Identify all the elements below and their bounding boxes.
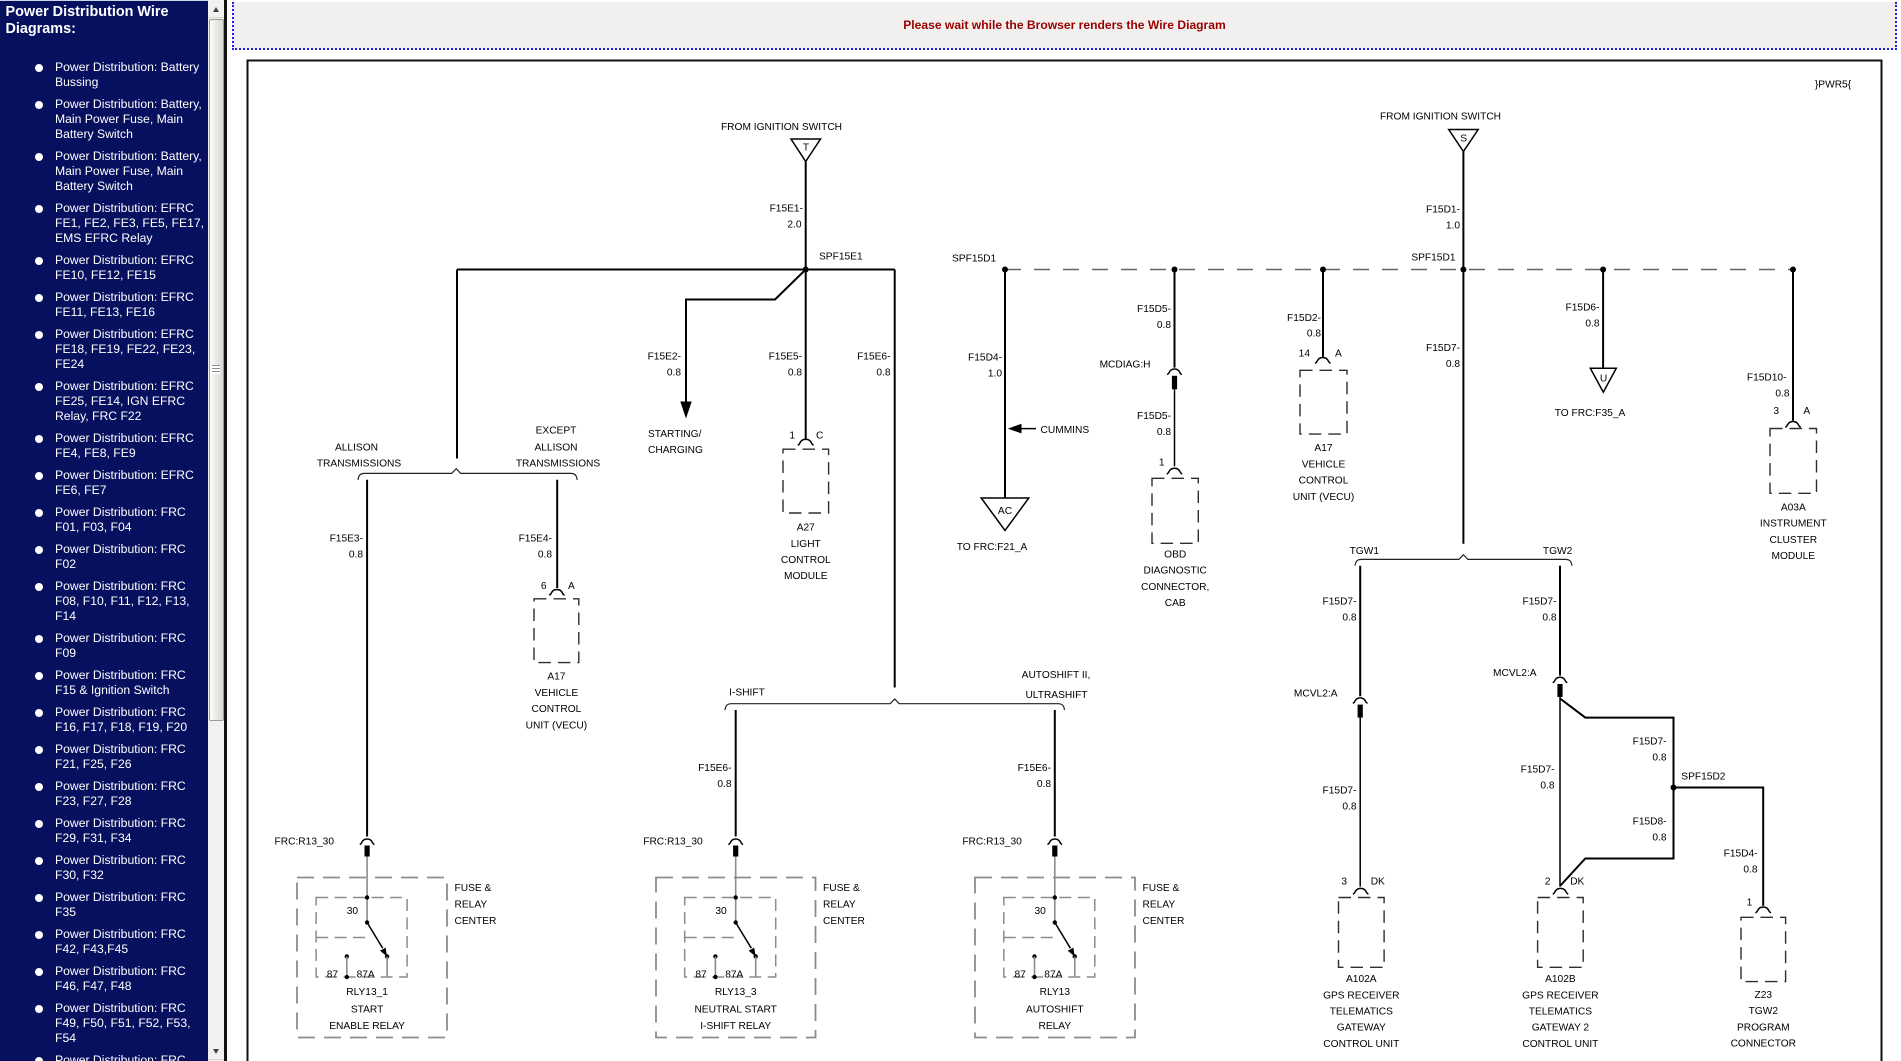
svg-text:F15D7-: F15D7- [1633,736,1667,747]
switch arm [736,923,752,949]
wire F15D7 to TGW brace [1426,270,1463,544]
wire F15D2 [1287,270,1323,357]
svg-text:TGW2: TGW2 [1749,1006,1779,1017]
svg-text:F15D7-: F15D7- [1323,785,1357,796]
svg-text:MODULE: MODULE [784,571,828,582]
svg-text:DK: DK [1371,876,1385,887]
svg-text:0.8: 0.8 [1652,752,1666,763]
svg-text:F15E6-: F15E6- [857,352,890,363]
top message box [232,2,1897,50]
svg-text:F15D7-: F15D7- [1323,596,1357,607]
svg-text:U: U [1600,373,1607,384]
svg-text:87: 87 [695,969,707,980]
svg-text:F15D7-: F15D7- [1523,596,1557,607]
svg-text:CENTER: CENTER [455,916,497,927]
svg-text:GPS RECEIVER: GPS RECEIVER [1522,990,1598,1001]
svg-text:RLY13_3: RLY13_3 [715,987,757,998]
fuse &amp; relay center box [975,878,1135,1038]
svg-text:A: A [1803,406,1810,417]
svg-text:0.8: 0.8 [349,549,363,560]
wire F15D5 upper [1137,270,1174,368]
pin 1 (Z23) [1747,898,1771,913]
svg-text:SPF15D1: SPF15D1 [1411,253,1456,264]
svg-text:30: 30 [715,906,727,917]
wire F15D7 TGW2 drop [1523,566,1560,676]
node U triangle TO FRC:F35_A [1555,368,1626,419]
svg-text:ALLISON: ALLISON [335,442,378,453]
connector FRC:R13_30 (relay 3 feed) [962,837,1062,857]
svg-text:0.8: 0.8 [1446,359,1460,370]
svg-text:TGW1: TGW1 [1350,546,1380,557]
svg-text:0.8: 0.8 [1652,832,1666,843]
svg-text:Z23: Z23 [1755,990,1773,1001]
svg-text:S: S [1460,134,1467,145]
svg-text:F15D5-: F15D5- [1137,304,1171,315]
node SPF15D2 [1671,772,1726,791]
junction at pin 30 [1053,895,1057,899]
svg-text:AC: AC [998,506,1012,517]
wire F15D10 [1747,270,1793,421]
svg-text:30: 30 [1034,906,1046,917]
svg-text:F15D6-: F15D6- [1566,303,1600,314]
svg-text:FUSE &: FUSE & [1143,883,1180,894]
svg-text:0.8: 0.8 [1585,318,1599,329]
svg-text:A: A [1335,349,1342,360]
wire F15D7 TGW1 drop [1323,566,1361,697]
CUMMINS arrow [1008,424,1090,436]
svg-text:F15D7-: F15D7- [1426,343,1460,354]
svg-text:AUTOSHIFT II,: AUTOSHIFT II, [1022,670,1091,681]
svg-text:RLY13_1: RLY13_1 [346,987,388,998]
contact 87A [1073,954,1077,958]
svg-text:1: 1 [1159,458,1165,469]
svg-text:87A: 87A [725,969,743,980]
svg-text:I-SHIFT RELAY: I-SHIFT RELAY [700,1021,771,1032]
svg-text:87A: 87A [1044,969,1062,980]
svg-text:MCVL2:A: MCVL2:A [1493,668,1537,679]
svg-text:1: 1 [789,431,795,442]
pin 14 A [1299,349,1342,364]
svg-text:DK: DK [1570,876,1584,887]
pin 6 A [541,581,575,595]
relay RLY13_1 START ENABLE RELAY [297,857,496,1038]
svg-text:UNIT (VECU): UNIT (VECU) [1293,492,1355,503]
svg-text:14: 14 [1299,349,1311,360]
svg-text:F15D8-: F15D8- [1633,816,1667,827]
wire F15D4 to AC [968,270,1005,499]
svg-text:CONTROL: CONTROL [531,704,581,715]
svg-text:F15D4-: F15D4- [1724,848,1758,859]
svg-text:CONTROL: CONTROL [781,555,831,566]
connector A03A instrument cluster [1760,429,1827,563]
svg-text:TO FRC:F35_A: TO FRC:F35_A [1555,408,1626,419]
svg-text:VEHICLE: VEHICLE [1302,459,1346,470]
svg-text:FRC:R13_30: FRC:R13_30 [643,837,703,848]
connector A17 VECU left [526,599,588,732]
svg-text:T: T [803,143,809,154]
switch arm [1055,923,1071,949]
wire SPF15D1 dashed bus [1005,269,1793,271]
svg-text:0.8: 0.8 [1542,612,1556,623]
svg-text:0.8: 0.8 [1342,612,1356,623]
wire F15D1 [1426,152,1463,270]
relay body box [316,898,407,978]
svg-text:F15E3-: F15E3- [330,533,363,544]
svg-text:F15D5-: F15D5- [1137,411,1171,422]
svg-text:OBD: OBD [1164,550,1186,561]
svg-text:C: C [816,431,823,442]
relay RLY13 AUTOSHIFT RELAY [975,857,1184,1038]
svg-text:RELAY: RELAY [1038,1021,1071,1032]
relay RLY13_3 NEUTRAL START I-SHIFT RELAY [656,857,865,1038]
svg-text:87A: 87A [357,969,375,980]
svg-text:STARTING/: STARTING/ [648,429,702,440]
sidebar [0,1,208,1061]
svg-text:NEUTRAL START: NEUTRAL START [694,1005,776,1016]
svg-text:CONNECTOR,: CONNECTOR, [1141,582,1209,593]
wire F15D7 TGW1 lower [1323,718,1361,887]
svg-text:87: 87 [327,969,339,980]
svg-text:SPF15D1: SPF15D1 [952,254,997,265]
svg-text:0.8: 0.8 [1307,329,1321,340]
relay body box [685,898,776,978]
svg-text:CHARGING: CHARGING [648,445,703,456]
svg-text:F15D10-: F15D10- [1747,373,1787,384]
connector FRC:R13_30 (relay 2 feed) [643,837,743,857]
svg-text:F15E4-: F15E4- [519,533,552,544]
connector MCVL2:A (TGW1) [1294,688,1368,717]
svg-text:GATEWAY 2: GATEWAY 2 [1532,1023,1590,1034]
contact 87 [345,954,349,958]
svg-text:MCDIAG:H: MCDIAG:H [1100,359,1151,370]
contact 87A [754,954,758,958]
connector FRC:R13_30 (relay 1 feed) [275,837,375,857]
svg-text:F15E5-: F15E5- [769,352,802,363]
fuse &amp; relay center box [297,878,447,1038]
svg-text:87: 87 [1014,969,1026,980]
svg-text:GATEWAY: GATEWAY [1337,1023,1386,1034]
wire into relay [366,857,368,923]
junction at pin 30 [365,895,369,899]
fuse &amp; relay center box [656,878,816,1038]
svg-text:2.0: 2.0 [787,220,801,231]
contact 87 [713,954,717,958]
switch arm [367,923,383,949]
node SPF15E1 [803,252,863,273]
svg-text:CLUSTER: CLUSTER [1770,535,1818,546]
svg-text:3: 3 [1773,406,1779,417]
wire into relay [1054,857,1056,923]
wire F15E6 down to I-SHIFT brace [857,270,895,688]
svg-text:ULTRASHIFT: ULTRASHIFT [1025,690,1087,701]
svg-text:CUMMINS: CUMMINS [1041,425,1090,436]
svg-text:F15E6-: F15E6- [698,763,731,774]
svg-text:A17: A17 [547,672,565,683]
wire to ALLISON brace [456,270,458,459]
contact 87 [1032,954,1036,958]
relay body box [1004,898,1095,978]
svg-text:F15D1-: F15D1- [1426,204,1460,215]
svg-text:FUSE &: FUSE & [455,883,492,894]
svg-text:TO FRC:F21_A: TO FRC:F21_A [957,542,1028,553]
wire F15D5 lower [1137,389,1174,466]
svg-text:RELAY: RELAY [455,900,488,911]
brace ALLISON / EXCEPT ALLISON [317,425,601,480]
wire F15E3 (allison) [330,480,368,837]
svg-text:0.8: 0.8 [788,368,802,379]
svg-text:FRC:R13_30: FRC:R13_30 [962,837,1022,848]
svg-text:0.8: 0.8 [538,549,552,560]
connector OBD [1141,478,1209,609]
svg-text:VEHICLE: VEHICLE [535,688,579,699]
svg-text:CONTROL UNIT: CONTROL UNIT [1323,1039,1399,1050]
svg-text:MODULE: MODULE [1772,551,1816,562]
svg-text:RLY13: RLY13 [1040,987,1071,998]
svg-text:CONTROL: CONTROL [1299,476,1349,487]
svg-text:0.8: 0.8 [876,368,890,379]
connector Z23 TGW2 program [1731,917,1796,1049]
node FROM IGNITION SWITCH (T) [721,122,842,162]
pin 1 (OBD) [1159,458,1182,475]
svg-text:F15E2-: F15E2- [648,352,681,363]
svg-text:A03A: A03A [1781,502,1806,513]
svg-text:RELAY: RELAY [1143,900,1176,911]
wire F15D7/F15D8 loop to SPF15D2 [1560,699,1674,887]
node FROM IGNITION SWITCH (S) [1380,112,1501,152]
wire F15E6 i-shift drop [698,710,736,837]
svg-text:F15E6-: F15E6- [1018,763,1051,774]
wire SPF15E1 bus [457,269,895,271]
svg-text:3: 3 [1341,876,1347,887]
wire F15D4 to Z23 [1674,788,1764,906]
pin 3 DK [1341,876,1385,894]
svg-text:SPF15D2: SPF15D2 [1681,772,1726,783]
svg-text:TELEMATICS: TELEMATICS [1529,1007,1592,1018]
svg-text:0.8: 0.8 [717,779,731,790]
svg-text:TRANSMISSIONS: TRANSMISSIONS [516,459,601,470]
junction at pin 30 [734,895,738,899]
pin 1 C [789,431,823,446]
brace I-SHIFT / AUTOSHIFT [725,670,1090,710]
wire F15D6 to U [1566,270,1604,369]
svg-text:TRANSMISSIONS: TRANSMISSIONS [317,459,402,470]
contact 87A [385,954,389,958]
svg-text:DIAGNOSTIC: DIAGNOSTIC [1143,566,1206,577]
svg-text:0.8: 0.8 [1540,780,1554,791]
svg-text:CAB: CAB [1165,598,1186,609]
connector MCVL2:A (TGW2) [1493,668,1567,697]
svg-text:ALLISON: ALLISON [534,442,577,453]
svg-text:FUSE &: FUSE & [823,883,860,894]
svg-text:FRC:R13_30: FRC:R13_30 [275,837,335,848]
svg-text:UNIT (VECU): UNIT (VECU) [526,720,588,731]
svg-text:CENTER: CENTER [1143,916,1185,927]
wire into relay [735,857,737,923]
svg-text:MCVL2:A: MCVL2:A [1294,688,1338,699]
svg-text:FROM IGNITION SWITCH: FROM IGNITION SWITCH [1380,112,1501,123]
node AC triangle TO FRC:F21_A [957,498,1029,553]
svg-text:}PWR5{: }PWR5{ [1815,80,1852,91]
svg-text:F15D7-: F15D7- [1521,764,1555,775]
frame divider [224,0,226,1061]
wire F15E4 (except allison) [519,480,558,588]
svg-text:CENTER: CENTER [823,916,865,927]
svg-text:1.0: 1.0 [1446,220,1460,231]
connector A102A GPS receiver [1323,898,1399,1050]
wire F15E6 autoshift drop [1018,710,1055,837]
svg-text:A: A [568,581,575,592]
svg-text:A17: A17 [1314,443,1332,454]
svg-text:PROGRAM: PROGRAM [1737,1022,1790,1033]
svg-text:0.8: 0.8 [1037,779,1051,790]
svg-text:RELAY: RELAY [823,900,856,911]
svg-text:30: 30 [347,906,359,917]
wire F15E2 to starting/charging [648,270,806,457]
top strip [0,0,1901,2]
svg-text:F15E1-: F15E1- [770,204,803,215]
svg-text:F15D4-: F15D4- [968,353,1002,364]
svg-text:ENABLE RELAY: ENABLE RELAY [329,1021,405,1032]
wire F15E1 [770,162,806,270]
svg-text:EXCEPT: EXCEPT [536,425,577,436]
svg-text:A27: A27 [797,523,815,534]
svg-text:F15D2-: F15D2- [1287,313,1321,324]
svg-text:1.0: 1.0 [988,369,1002,380]
svg-text:I-SHIFT: I-SHIFT [729,688,765,699]
svg-text:START: START [351,1005,383,1016]
svg-text:1: 1 [1747,898,1753,909]
svg-text:CONTROL UNIT: CONTROL UNIT [1522,1039,1598,1050]
junction dots on bus [1002,267,1008,273]
svg-text:LIGHT: LIGHT [791,539,821,550]
svg-text:AUTOSHIFT: AUTOSHIFT [1026,1005,1084,1016]
svg-text:0.8: 0.8 [1775,389,1789,400]
svg-text:2: 2 [1545,876,1551,887]
svg-text:A102B: A102B [1545,974,1576,985]
svg-text:CONNECTOR: CONNECTOR [1731,1039,1796,1050]
svg-text:SPF15E1: SPF15E1 [819,252,863,263]
svg-text:6: 6 [541,581,547,592]
svg-text:TELEMATICS: TELEMATICS [1330,1007,1393,1018]
wire F15E5 to A27 [769,270,806,439]
svg-text:0.8: 0.8 [667,368,681,379]
connector A17 VECU right [1293,370,1355,503]
brace TGW1 / TGW2 [1350,546,1573,566]
pin 3 A [1773,406,1810,427]
svg-text:0.8: 0.8 [1342,801,1356,812]
pin 2 DK [1545,876,1585,894]
connector MCDIAG:H [1100,359,1182,389]
connector A27 [781,449,831,582]
wire F15D7 TGW2 to pin 2 [1521,697,1560,887]
svg-text:INSTRUMENT: INSTRUMENT [1760,519,1827,530]
svg-text:0.8: 0.8 [1157,427,1171,438]
svg-text:TGW2: TGW2 [1543,546,1573,557]
connector A102B GPS receiver 2 [1522,898,1598,1050]
svg-text:FROM IGNITION SWITCH: FROM IGNITION SWITCH [721,122,842,133]
svg-text:0.8: 0.8 [1157,320,1171,331]
sidebar scrollbar [208,0,224,1061]
svg-text:A102A: A102A [1346,974,1377,985]
svg-text:0.8: 0.8 [1743,864,1757,875]
svg-text:GPS RECEIVER: GPS RECEIVER [1323,990,1399,1001]
